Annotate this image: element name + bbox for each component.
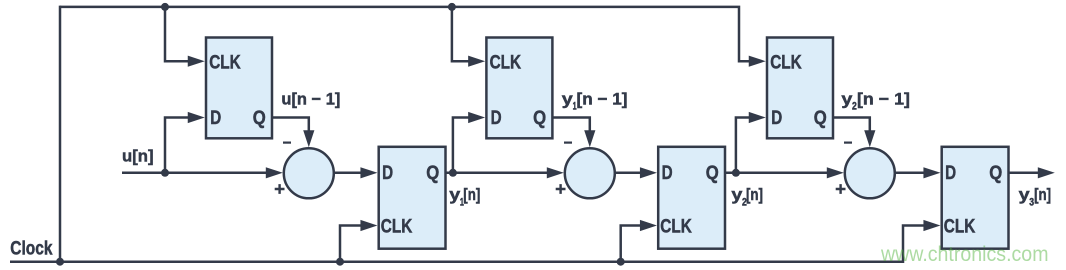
wire: top clock rail from left riser to stage-3 CLK drop: [60, 7, 749, 61]
flip-flop U2b (output register): [658, 147, 725, 249]
flip-flop U2a (delay register): [486, 38, 552, 139]
svg-text:[n − 1]: [n − 1]: [857, 89, 910, 108]
arrow into U1b D: [360, 167, 377, 178]
summing node S1: [284, 148, 334, 198]
svg-text:Q: Q: [814, 107, 827, 129]
arrow into summer S1 top: [303, 130, 314, 147]
wire: U3b Q output y3[n]: [1009, 172, 1039, 175]
svg-text:Q: Q: [426, 162, 439, 184]
minus sign at S2: [564, 142, 572, 144]
svg-text:Q: Q: [989, 162, 1002, 184]
wire: bottom Clock rail to stage-3 lower CLK riser: [10, 226, 924, 262]
arrow into U1a CLK: [188, 56, 205, 67]
wire: summer S2 to U2b D: [616, 172, 641, 175]
arrow into U3a D: [749, 112, 766, 123]
arrow into summer S3 top: [864, 130, 875, 147]
minus sign at S1: [283, 142, 291, 144]
junction: node at main line stage 3: [732, 169, 740, 177]
arrow into U2b D: [640, 167, 657, 178]
svg-text:[n]: [n]: [1034, 185, 1051, 204]
flip-flop U3b (output register): [942, 147, 1009, 249]
svg-text:CLK: CLK: [381, 216, 413, 238]
flip-flop U1a (delay register): [206, 38, 272, 139]
svg-text:[n]: [n]: [746, 185, 763, 204]
wire: U3a Q to summer S3 minus input: [833, 118, 870, 131]
wire: summer S3 to U3b D: [896, 172, 924, 175]
junction: top rail tap stage 2: [448, 3, 456, 11]
summing node S2: [565, 148, 615, 198]
plus sign at S2: [556, 184, 566, 194]
arrow output y3[n]: [1038, 167, 1055, 178]
svg-text:Q: Q: [253, 107, 266, 129]
plus sign at S1: [275, 184, 285, 194]
arrow into U3b D: [923, 167, 940, 178]
summing node S3: [845, 148, 895, 198]
junction: node at main line stage 1: [161, 169, 169, 177]
wire: top rail drop to U1a CLK: [165, 7, 188, 61]
wire: U2a Q to summer S2 minus input: [552, 118, 589, 131]
svg-text:u[n − 1]: u[n − 1]: [281, 89, 340, 108]
junction: bottom rail tap stage 2: [617, 258, 625, 266]
wire: left vertical clock riser: [59, 6, 62, 262]
junction: top rail tap stage 1: [161, 3, 169, 11]
svg-text:D: D: [662, 162, 673, 184]
wire: U1a Q to summer S1 minus input: [272, 118, 309, 131]
svg-text:CLK: CLK: [490, 52, 521, 74]
wire: u[n] input line into summer S1: [122, 172, 266, 175]
wire: summer S1 to U1b D: [335, 172, 361, 175]
svg-text:CLK: CLK: [944, 216, 976, 238]
wire: top rail drop to U2a CLK: [452, 7, 469, 61]
arrow into U2a CLK: [468, 56, 485, 67]
arrow into U1a D: [188, 112, 205, 123]
svg-text:[n − 1]: [n − 1]: [577, 89, 628, 108]
arrow into U3a CLK: [749, 56, 766, 67]
minus sign at S3: [844, 142, 852, 144]
wire: riser from main line to U2a D: [453, 118, 469, 173]
arrow into summer S3: [827, 167, 844, 178]
wire: riser from main line to U1a D: [165, 118, 188, 173]
svg-text:D: D: [771, 107, 782, 129]
arrow into U2a D: [468, 112, 485, 123]
svg-text:CLK: CLK: [209, 52, 241, 74]
svg-text:Q: Q: [533, 107, 546, 129]
wire: bottom rail riser to U1b CLK: [340, 226, 361, 262]
arrow into U1b CLK: [360, 220, 377, 231]
svg-text:CLK: CLK: [770, 52, 802, 74]
arrow into summer S2 top: [584, 130, 595, 147]
arrow into summer S2: [547, 167, 564, 178]
svg-text:CLK: CLK: [660, 216, 692, 238]
svg-text:D: D: [210, 107, 221, 129]
flip-flop U3a (delay register): [767, 38, 833, 139]
junction: clock rail at left riser: [56, 258, 64, 266]
svg-text:D: D: [382, 162, 393, 184]
wire: U2b Q to summer S3: [725, 172, 827, 175]
arrow into U3b CLK: [923, 220, 940, 231]
svg-text:Q: Q: [706, 162, 719, 184]
wire: riser from main line to U3a D: [736, 118, 749, 173]
svg-text:Clock: Clock: [10, 238, 52, 260]
arrow into U2b CLK: [640, 220, 657, 231]
plus sign at S3: [836, 184, 846, 194]
svg-text:D: D: [491, 107, 502, 129]
wire: U1b Q to summer S2: [446, 172, 548, 175]
flip-flop U1b (output register): [379, 147, 446, 249]
svg-text:[n]: [n]: [463, 185, 480, 204]
svg-text:www.chtronics.com: www.chtronics.com: [880, 243, 1048, 266]
junction: node at main line stage 2: [449, 169, 457, 177]
wire: bottom rail riser to U2b CLK: [621, 226, 641, 262]
svg-text:D: D: [945, 162, 956, 184]
svg-text:u[n]: u[n]: [122, 147, 154, 166]
junction: bottom rail tap stage 1: [336, 258, 344, 266]
arrow into summer S1: [266, 167, 283, 178]
